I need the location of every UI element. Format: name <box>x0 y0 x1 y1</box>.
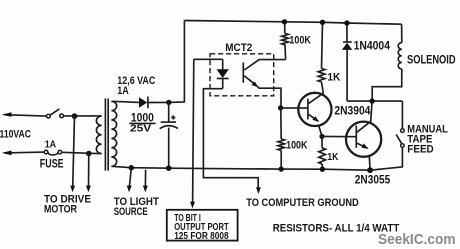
label 1A FUSE <box>40 139 64 171</box>
wire Q1 emitter junction to Q2 base <box>322 135 356 137</box>
wire collector node horizontal <box>347 100 402 102</box>
svg-text:FEED: FEED <box>407 144 433 156</box>
svg-text:1K: 1K <box>327 71 340 83</box>
node dot base junction <box>278 105 283 110</box>
svg-text:FUSE: FUSE <box>40 159 64 171</box>
wire to light source arrow 2 <box>143 170 148 193</box>
svg-text:110VAC: 110VAC <box>0 128 31 140</box>
node junction dot at fuse output <box>86 151 92 157</box>
wire to light source arrow 1 <box>127 168 132 193</box>
node dot capacitor tap <box>166 165 172 171</box>
node dot bottom rail at R2 <box>279 166 284 171</box>
svg-text:1K: 1K <box>327 151 338 163</box>
wire 110VAC top line with left arrow <box>2 112 47 117</box>
capacitor C1 1000uF 25V <box>160 102 178 168</box>
svg-text:1A: 1A <box>45 139 57 151</box>
node dot bottom rail at R4 <box>320 167 325 172</box>
node filter junction <box>166 100 171 105</box>
label TO LIGHT SOURCE <box>114 196 159 218</box>
svg-text:125 FOR 8008: 125 FOR 8008 <box>174 231 229 242</box>
node dot top rail at R1 <box>282 19 287 24</box>
wire LED anode down to output port arrow <box>190 59 195 208</box>
label 1000/25V <box>129 110 155 134</box>
resistor R1 100K (upper) <box>282 22 289 60</box>
transistor Q2 2N3055 <box>346 101 381 170</box>
svg-text:1N4004: 1N4004 <box>354 41 391 53</box>
svg-text:100K: 100K <box>286 140 307 152</box>
fuse F1 1A <box>44 150 61 155</box>
resistor R3 1K (upper) <box>318 22 325 93</box>
wire LED cathode to computer ground run <box>203 89 258 190</box>
top rail wire <box>184 21 401 25</box>
svg-text:TO COMPUTER GROUND: TO COMPUTER GROUND <box>246 197 359 209</box>
solenoid L1 <box>372 24 402 101</box>
svg-text:SOURCE: SOURCE <box>114 206 148 218</box>
svg-text:2N3904: 2N3904 <box>334 104 370 118</box>
resistor R4 1K (lower) <box>319 136 326 169</box>
node junction dot at switch output <box>72 113 78 119</box>
switch S1 (power switch) <box>47 109 64 118</box>
transformer T1 core <box>105 99 108 171</box>
wire switch to transformer primary <box>64 115 98 117</box>
node dot Q1 emitter junction <box>319 134 324 139</box>
transformer T1 primary winding <box>96 116 101 154</box>
phototransistor of MCT2 <box>243 60 285 106</box>
transistor Q1 2N3904 <box>298 93 331 137</box>
wire secondary top to rectifier diode <box>111 101 139 102</box>
box TO BIT 1 OUTPUT PORT <box>167 210 238 242</box>
diode D2 1N4004 <box>342 23 352 101</box>
wire base junction to Q1 base <box>281 107 308 109</box>
svg-text:25V: 25V <box>130 122 151 134</box>
node dot light-source tap <box>129 165 134 170</box>
wire to drive motor (right) with down arrow <box>86 154 91 193</box>
wire to drive motor (left) with down arrow <box>70 116 75 192</box>
optocoupler MCT2 dashed box <box>210 54 274 96</box>
transformer T1 secondary winding <box>111 101 116 166</box>
svg-text:SOLENOID: SOLENOID <box>407 55 456 67</box>
svg-text:MOTOR: MOTOR <box>44 203 77 215</box>
svg-text:MCT2: MCT2 <box>225 42 252 54</box>
label 12,6 VAC 1A <box>117 75 155 97</box>
wire LED anode hook horizontal <box>194 58 223 60</box>
node dot bottom rail at Q2 emitter <box>367 167 373 173</box>
diode D1 rectifier <box>139 97 148 109</box>
wire fuse to transformer primary bottom <box>62 152 98 153</box>
node dot top rail at R3 <box>320 20 325 25</box>
LED inside MCT2 <box>217 59 229 88</box>
svg-text:SeekIC.com: SeekIC.com <box>378 231 456 248</box>
label MANUAL TAPE FEED <box>407 124 448 156</box>
node dot top rail at D2 <box>344 20 349 25</box>
bottom rail wire <box>111 166 370 170</box>
svg-text:100K: 100K <box>289 35 311 47</box>
arrow to computer ground <box>256 187 261 194</box>
resistor R2 100K (lower) <box>278 108 285 169</box>
svg-text:2N3055: 2N3055 <box>355 172 391 186</box>
switch S2 manual tape feed <box>370 101 404 170</box>
wire 110VAC bottom line with left arrow <box>2 151 45 156</box>
label TO DRIVE MOTOR <box>44 193 91 215</box>
node dot collector junction <box>369 98 374 103</box>
wire diode to filter node and up-corner to top rail <box>148 21 185 103</box>
svg-text:1A: 1A <box>117 85 129 97</box>
